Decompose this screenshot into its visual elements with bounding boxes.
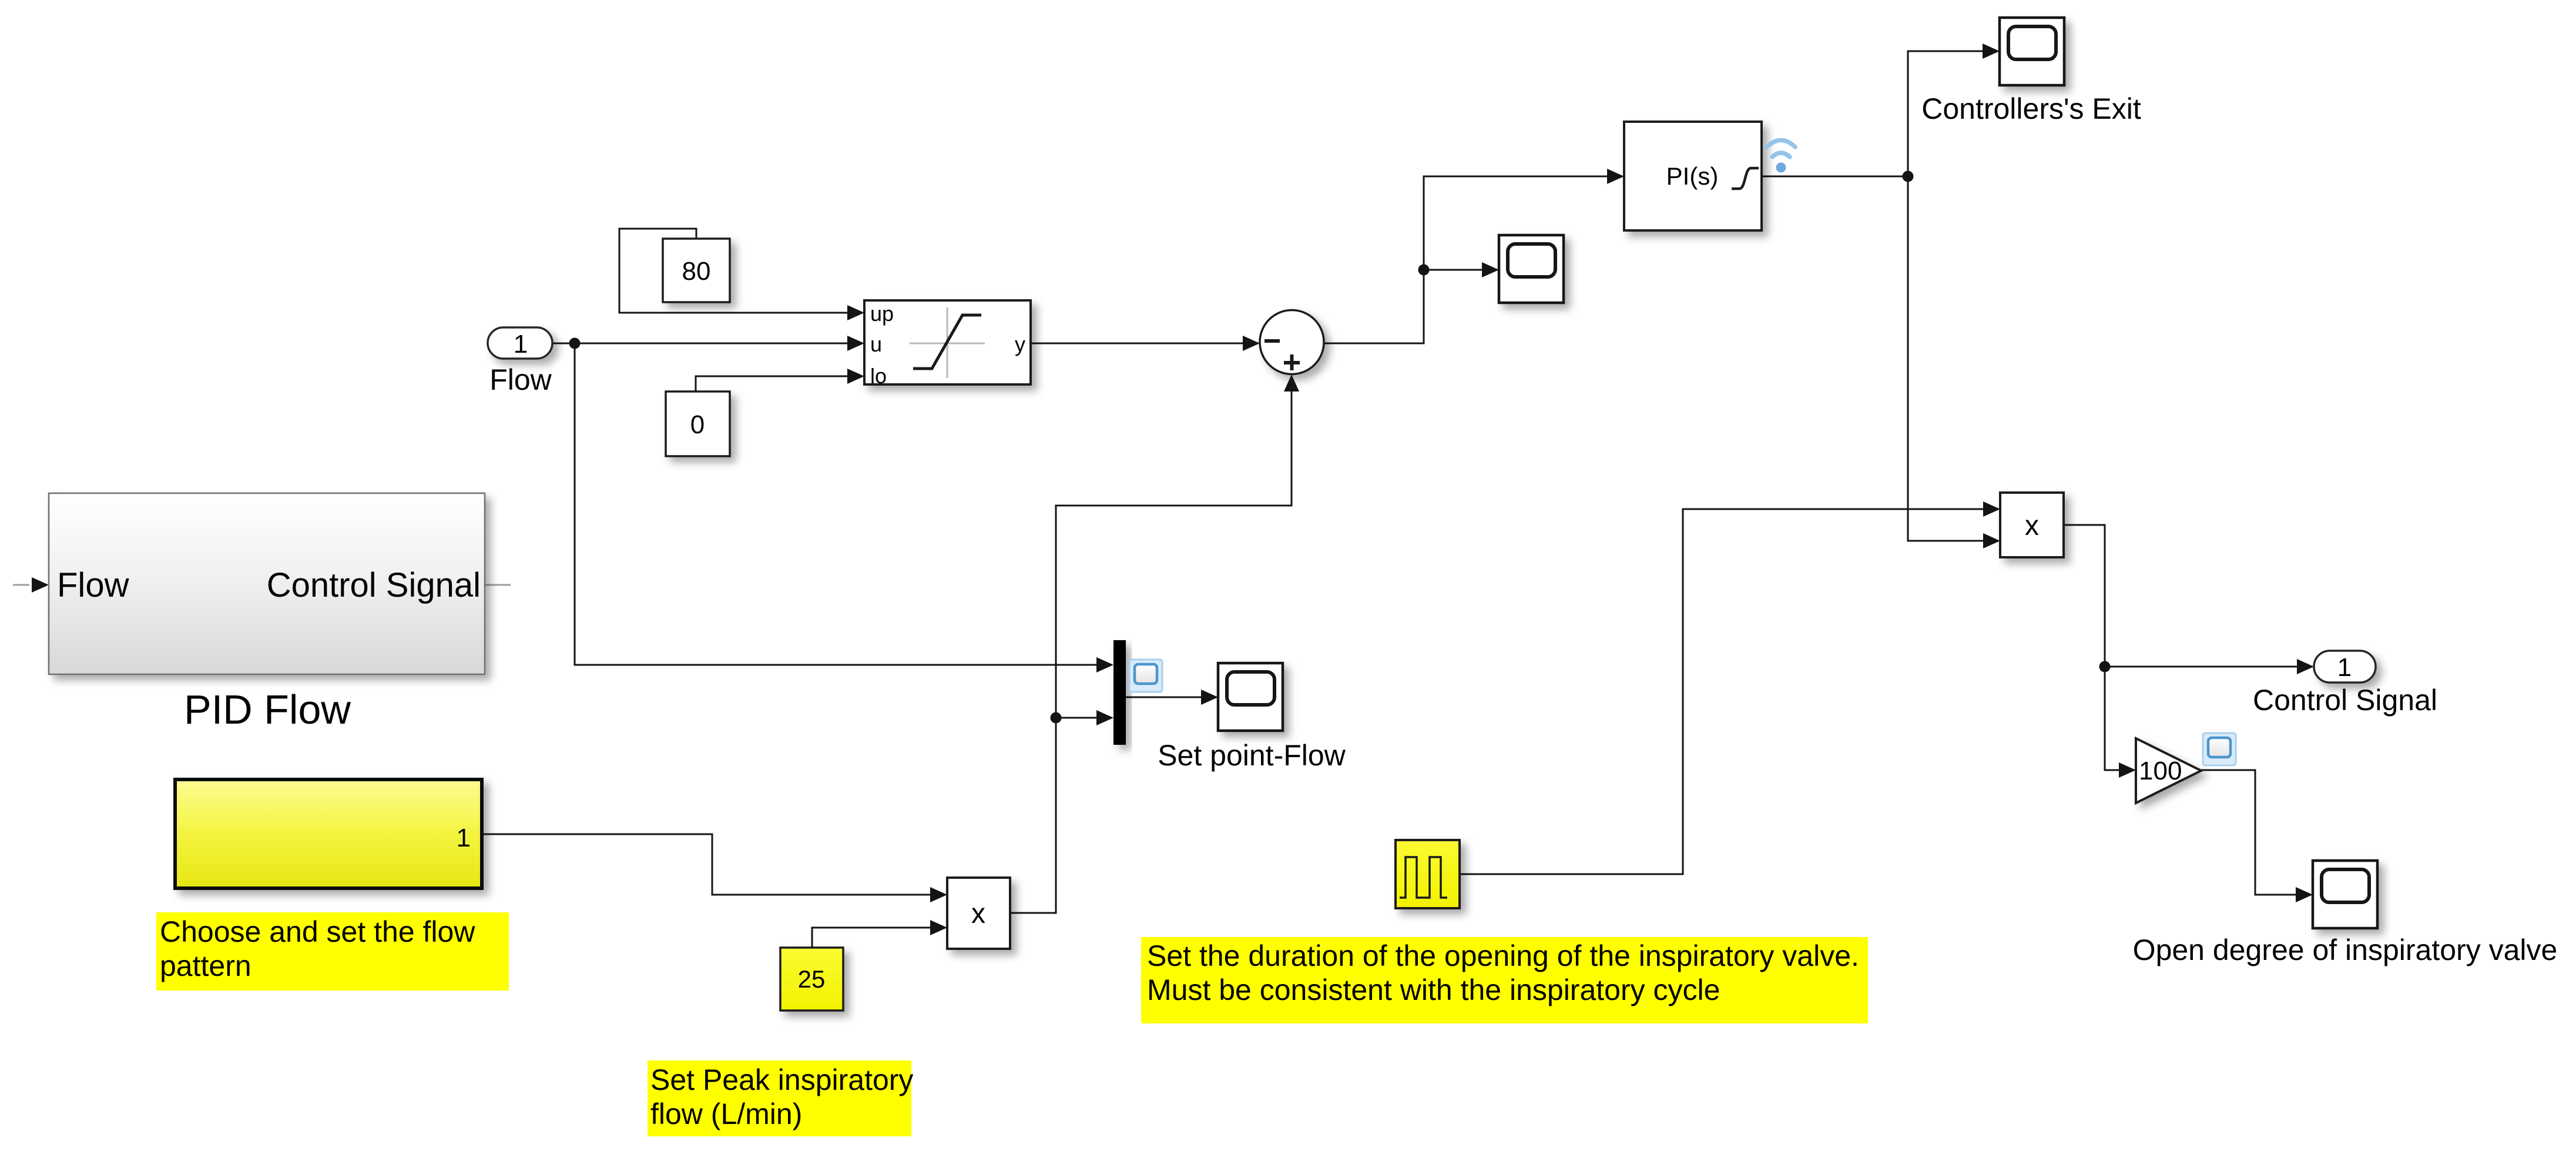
svg-text:u: u [870,332,882,356]
logged signal badge on gain output [2203,733,2236,765]
wire Mux output to Set point-Flow scope [1126,697,1216,698]
wire junction up to Controllers Exit scope [1908,51,1998,176]
svg-text:lo: lo [870,364,887,388]
pulse generator (yellow) [1396,840,1460,908]
node junction on Flow line [569,338,581,349]
gain 100 [2136,738,2201,803]
wire Flow junction down to Mux input 1 [575,343,1112,665]
svg-text:up: up [870,302,894,326]
node junction on Sum output [1418,265,1430,276]
wire Sum output to PI(s) input [1324,176,1622,343]
scope Controllers Exit [2000,18,2064,85]
wire constant 25 to Product1 input 2 [812,928,945,950]
svg-text:Control Signal: Control Signal [2253,684,2437,717]
wire constant 80 to Saturation up input [619,229,863,313]
svg-text:flow (L/min): flow (L/min) [650,1098,802,1130]
wire junction down to Product2 input 2 [1908,176,1998,541]
svg-text:Set the duration of the openin: Set the duration of the opening of the i… [1147,939,1859,972]
constant 25 (yellow) [780,948,843,1011]
arrowheads [847,44,2314,935]
svg-text:x: x [971,898,985,929]
svg-text:100: 100 [2139,757,2182,785]
svg-text:80: 80 [682,257,711,286]
svg-text:25: 25 [798,965,826,993]
svg-text:Must be consistent with the in: Must be consistent with the inspiratory … [1147,973,1720,1006]
wire Saturation y output to Sum [1031,343,1258,344]
product Product1 [947,878,1010,949]
svg-text:Flow: Flow [489,363,552,396]
svg-text:0: 0 [690,410,705,439]
product Product2 [2000,493,2064,557]
wire Gain output to Open degree scope [2201,770,2311,895]
svg-text:y: y [1015,332,1025,356]
svg-text:Controllers's Exit: Controllers's Exit [1921,92,2141,125]
wire constant 0 to Saturation lo input [696,376,863,394]
scope Set point-Flow [1218,663,1283,731]
wire Product2 output to gain and outport [2064,525,2134,770]
annotation inspiratory valve duration [1141,937,1868,1023]
svg-text:Set point-Flow: Set point-Flow [1158,739,1346,772]
wire Product1 output up to Sum plus input [1010,376,1292,913]
svg-text:Flow: Flow [57,566,130,604]
annotation set peak inspiratory flow [648,1060,913,1136]
svg-text:1: 1 [514,330,528,359]
svg-text:x: x [2025,510,2039,541]
svg-text:PID Flow: PID Flow [184,687,351,732]
sum block [1260,310,1324,374]
scope Open degree of inspiratory valve [2313,861,2377,928]
PID Flow subsystem [13,493,511,732]
wifi tuning badge on PI(s) [1767,140,1795,173]
wire flow pattern subsystem to Product1 input 1 [482,834,945,895]
svg-text:PI(s): PI(s) [1666,162,1719,190]
constant 0 [666,392,730,456]
mux block [1113,640,1126,745]
flow pattern subsystem (yellow) [175,779,482,888]
wire PI(s) output to junction [1762,176,1908,178]
scope Scope1 [1499,235,1564,303]
node junction on PI output [1903,171,1914,182]
op-amp PI(s) controller [1624,122,1762,230]
saturation dynamic block [864,300,1031,388]
svg-text:Open degree of inspiratory val: Open degree of inspiratory valve [2133,933,2558,966]
node junction on Product2 output riser [2099,661,2111,672]
wire inport Flow to Saturation Dynamic u input [552,343,863,344]
wire Pulse Generator to Product2 input 1 [1460,509,1998,874]
wire junction to outport Control Signal [2105,666,2312,668]
constant 80 [663,239,730,302]
logged signal badge on mux output [1129,660,1162,692]
svg-text:pattern: pattern [160,949,251,982]
outport 1 Control Signal [2253,651,2437,717]
annotation choose flow pattern [156,912,509,991]
svg-text:1: 1 [457,824,471,852]
svg-text:Control Signal: Control Signal [267,566,481,604]
svg-text:Choose and set the flow: Choose and set the flow [160,915,475,948]
svg-text:Set Peak inspiratory: Set Peak inspiratory [650,1063,913,1096]
wire junction to Scope1 [1424,269,1497,271]
wire junction to Mux input 2 [1056,717,1112,719]
svg-text:1: 1 [2337,653,2352,682]
inport 1 Flow [488,327,552,396]
node junction on Product1 output riser [1051,712,1062,724]
